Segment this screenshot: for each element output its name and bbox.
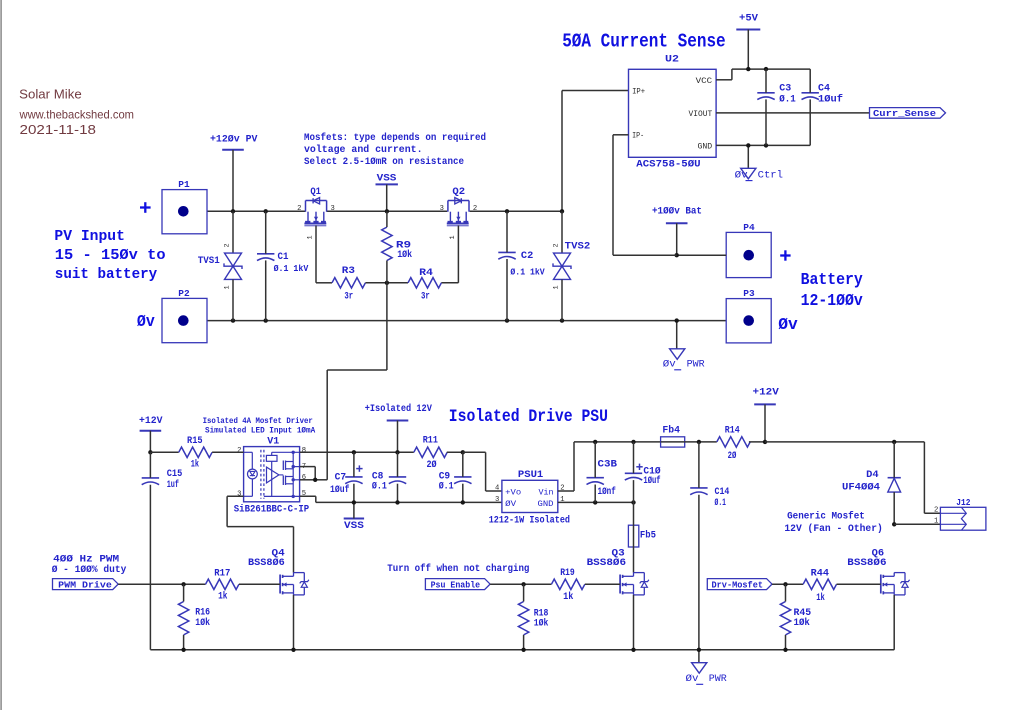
power +12V right (753, 387, 780, 405)
svg-text:8: 8 (302, 447, 306, 455)
resistor R11 (414, 447, 447, 457)
svg-text:2Ø: 2Ø (427, 459, 437, 471)
wire (523, 584, 525, 601)
resistor R18 (518, 602, 528, 635)
svg-text:P3: P3 (743, 288, 755, 299)
svg-text:1Øuf: 1Øuf (818, 94, 843, 106)
svg-text:PWM Drive: PWM Drive (58, 580, 112, 591)
wire (397, 484, 399, 503)
label C14 value (715, 487, 730, 509)
note Turn off when not charging (387, 563, 529, 575)
header text www.thebackshed.com (19, 107, 134, 121)
wire Q3 source (633, 595, 635, 650)
junction (697, 648, 701, 652)
pin 3 of Q2 (440, 205, 444, 213)
V1 internal LED (244, 452, 258, 496)
net label Psu Enable (425, 579, 490, 591)
label Q6 (847, 549, 886, 570)
svg-text:P1: P1 (178, 179, 190, 190)
svg-text:C3: C3 (779, 84, 791, 95)
svg-text:C4: C4 (818, 84, 830, 95)
wire Drv-Mosfet to R44 (772, 583, 803, 585)
svg-text:1: 1 (307, 235, 315, 239)
net label Curr_Sense (870, 108, 946, 119)
svg-text:BSS8Ø6: BSS8Ø6 (847, 557, 886, 569)
pin 1 of TVS1 (224, 285, 232, 289)
svg-text:J12: J12 (956, 497, 970, 508)
wire (785, 584, 787, 601)
svg-text:R3: R3 (342, 266, 355, 277)
pin GND of PSU1 (538, 499, 554, 509)
wire V1 pin5 to VSS rail (300, 496, 502, 502)
wire bottom 0v rail (150, 649, 894, 651)
wire (441, 282, 458, 284)
pin VCC of U2 (696, 77, 713, 86)
svg-text:R15: R15 (187, 436, 203, 447)
junction (385, 281, 389, 285)
svg-text:Q1: Q1 (310, 187, 321, 198)
svg-text:IP+: IP+ (632, 87, 645, 96)
label Fb4 (662, 425, 680, 437)
wire (316, 282, 332, 284)
wire to J12 pin 2 (924, 442, 940, 513)
wire C15 to 0v corner (149, 485, 151, 650)
svg-text:Fb4: Fb4 (662, 425, 680, 437)
junction (783, 582, 787, 586)
junction (505, 209, 509, 213)
svg-text:3: 3 (440, 205, 444, 213)
svg-text:1: 1 (224, 285, 232, 289)
svg-text:2: 2 (237, 447, 241, 455)
wire Q4 source (293, 595, 295, 650)
wire C14 to 0v rail (698, 495, 700, 650)
label R14 value (725, 425, 740, 462)
wire IP+ riser (562, 91, 629, 212)
transistor Q3 (620, 573, 649, 595)
svg-text:Psu Enable: Psu Enable (431, 580, 481, 591)
wire V1 pins 6-7 tie (300, 467, 316, 480)
capacitor C14 (690, 488, 707, 495)
resistor R17 (206, 579, 239, 589)
wire (633, 480, 635, 502)
resistor R9 (382, 227, 392, 260)
svg-text:3: 3 (237, 491, 241, 499)
junction (148, 450, 152, 454)
wire (150, 451, 178, 453)
connector P2 (162, 288, 207, 343)
label R11 value (423, 435, 438, 471)
svg-text:Fb5: Fb5 (640, 530, 656, 542)
junction (231, 209, 235, 213)
svg-text:R14: R14 (725, 425, 740, 436)
junction (746, 67, 750, 71)
svg-text:2: 2 (297, 205, 301, 213)
svg-text:+1ØØv Bat: +1ØØv Bat (652, 206, 702, 218)
wire (785, 635, 787, 650)
label Q3 (587, 549, 627, 570)
wire 0v rail (207, 320, 726, 322)
label R18 value (534, 608, 549, 629)
svg-text:R19: R19 (560, 568, 575, 579)
svg-text:1Øk: 1Øk (195, 617, 210, 629)
svg-text:R44: R44 (811, 569, 829, 580)
module PSU1 box (502, 480, 558, 512)
transistor Q1 (304, 198, 326, 226)
junction (461, 450, 465, 454)
pin Vin of PSU1 (539, 487, 554, 497)
junction (560, 318, 564, 322)
label J12 (956, 497, 970, 508)
label D4 value (842, 470, 880, 493)
ground 0v_PWR upper (663, 349, 705, 371)
svg-text:+Vo: +Vo (505, 487, 521, 497)
resistor R15 (179, 447, 212, 457)
svg-text:Ø - 1ØØ% duty: Ø - 1ØØ% duty (52, 564, 127, 576)
pin 1 of Q2 (449, 235, 457, 239)
svg-text:Øv: Øv (137, 312, 155, 331)
wire (506, 259, 508, 321)
capacitor C1 (257, 254, 274, 261)
pin 2 of J12 (934, 507, 938, 515)
wire (633, 442, 635, 473)
svg-text:1Øuf: 1Øuf (643, 475, 660, 487)
junction (697, 440, 701, 444)
op-amp U2 ACS758 box (629, 69, 717, 157)
junction (461, 500, 465, 504)
wire (462, 452, 464, 477)
wire (265, 211, 267, 254)
header text 2021-11-18 (20, 122, 97, 137)
junction (505, 318, 509, 322)
capacitor C9 (454, 477, 471, 484)
svg-text:P2: P2 (178, 288, 190, 299)
label ACS758-50U (636, 159, 700, 171)
wire Q6 source (893, 595, 895, 650)
svg-text:BSS8Ø6: BSS8Ø6 (248, 557, 285, 569)
svg-text:1Øk: 1Øk (534, 617, 549, 629)
pin 8 of V1 (302, 447, 306, 455)
svg-text:C3B: C3B (598, 460, 618, 471)
junction (231, 318, 235, 322)
connector J12 (940, 507, 986, 530)
svg-text:2Ø: 2Ø (728, 450, 737, 462)
pin 1 of TVS2 (553, 285, 561, 289)
wire (893, 442, 895, 478)
wire Fb4 through (661, 441, 717, 443)
label + Battery (780, 250, 790, 260)
label R44 value (811, 569, 829, 605)
wire (232, 279, 234, 320)
wire VCC step (716, 69, 810, 80)
label C10 value (643, 466, 660, 487)
label C3 value (779, 84, 796, 106)
svg-text:Select 2.5-1ØmR on resistance: Select 2.5-1ØmR on resistance (304, 156, 464, 168)
junction (395, 450, 399, 454)
svg-text:12V (Fan - Other): 12V (Fan - Other) (784, 523, 882, 535)
note PV Input (54, 228, 165, 283)
svg-text:PSU1: PSU1 (518, 470, 543, 481)
junction (521, 648, 525, 652)
junction (892, 440, 896, 444)
ground 0v_Ctrl (735, 168, 783, 181)
junction (783, 648, 787, 652)
resistor R3 (332, 278, 365, 288)
svg-text:2: 2 (224, 243, 232, 247)
wire (506, 211, 508, 252)
svg-text:P4: P4 (743, 222, 755, 233)
pin 2 of Q2 (473, 205, 477, 213)
svg-text:Battery: Battery (801, 270, 863, 289)
svg-text:Generic Mosfet: Generic Mosfet (787, 511, 865, 523)
capacitor C4 (802, 93, 819, 100)
svg-text:Øv: Øv (663, 359, 676, 371)
label TVS1 (198, 256, 220, 267)
junction (352, 450, 356, 454)
junction (181, 648, 185, 652)
capacitor C7 (345, 465, 362, 483)
label 1212-1W Isolated (489, 515, 570, 527)
wire V1 pin3 to Q4 drain (227, 496, 293, 572)
wire V1 pin8 row (300, 451, 414, 453)
wire (232, 150, 234, 212)
pin +Vo of PSU1 (505, 487, 521, 497)
wire GND row (716, 144, 810, 146)
transistor Q2 (447, 198, 469, 226)
svg-text:1: 1 (449, 235, 457, 239)
junction (892, 522, 896, 526)
label R17 value (214, 569, 230, 603)
junction (264, 209, 268, 213)
label V1 (267, 436, 279, 448)
junction (763, 440, 767, 444)
power +12V left (139, 415, 163, 431)
pin 6 of V1 (302, 474, 306, 482)
svg-text:PV Input: PV Input (54, 228, 125, 245)
connector P3 (726, 288, 771, 343)
svg-text:Ø.1: Ø.1 (715, 497, 727, 509)
svg-text:Ø.1: Ø.1 (439, 481, 454, 493)
svg-text:Ø.1 1kV: Ø.1 1kV (274, 263, 309, 274)
svg-text:Ø.1: Ø.1 (372, 481, 387, 493)
TVS diode TVS1 (224, 253, 242, 279)
svg-text:15 - 15Øv to: 15 - 15Øv to (55, 247, 166, 264)
wire (353, 484, 355, 503)
svg-text:Øv: Øv (778, 315, 798, 334)
svg-text:VCC: VCC (696, 77, 713, 86)
svg-text:Turn off when not charging: Turn off when not charging (387, 563, 529, 575)
svg-text:Drv-Mosfet: Drv-Mosfet (712, 580, 764, 591)
wire (386, 261, 388, 283)
header text Solar Mike (19, 87, 81, 102)
label C7 value (330, 472, 350, 496)
svg-text:+12Øv PV: +12Øv PV (210, 134, 258, 146)
note Battery 12-100v (801, 270, 863, 310)
svg-text:Isolated 4A Mosfet Driver: Isolated 4A Mosfet Driver (203, 416, 313, 426)
power +120v PV (210, 134, 258, 150)
svg-text:4: 4 (495, 485, 499, 493)
label R19 value (560, 568, 575, 603)
wire (893, 492, 895, 524)
wire to PSU1 pin 4 (463, 452, 502, 491)
connector P1 (162, 179, 207, 234)
junction (593, 500, 597, 504)
pin 4 of PSU1 (495, 485, 499, 493)
junction (631, 440, 635, 444)
capacitor C2 (498, 252, 515, 259)
note Generic Mosfet (784, 511, 882, 536)
label TVS2 (565, 242, 591, 253)
svg-text:2021-11-18: 2021-11-18 (20, 122, 97, 137)
wire (397, 452, 399, 477)
wire (765, 69, 767, 93)
svg-text:1212-1W Isolated: 1212-1W Isolated (489, 515, 570, 527)
label Fb5 (640, 530, 656, 542)
pin IP+ of U2 (632, 87, 645, 96)
note 400 Hz PWM (52, 554, 127, 576)
pin 3 of Q1 (331, 205, 335, 213)
svg-text:3r: 3r (344, 292, 353, 303)
wire (594, 442, 596, 478)
svg-text:Ctrl: Ctrl (758, 169, 783, 181)
wire (594, 485, 596, 503)
label C1 value (274, 252, 309, 274)
svg-text:+5V: +5V (739, 13, 759, 25)
svg-text:Solar Mike: Solar Mike (19, 87, 81, 102)
wire (698, 442, 700, 488)
label R9 value (396, 241, 412, 262)
title Isolated Drive PSU (449, 407, 608, 427)
diode D4 (888, 478, 901, 492)
title 50A Current Sense (562, 31, 726, 53)
pin 2 of TVS2 (553, 243, 561, 247)
resistor R4 (408, 278, 441, 288)
wire (232, 211, 234, 253)
svg-text:C7: C7 (335, 472, 347, 483)
wire (212, 451, 244, 453)
svg-text:+12V: +12V (139, 415, 163, 427)
junction (385, 209, 389, 213)
TVS diode TVS2 (553, 253, 571, 279)
label C9 value (439, 472, 454, 493)
svg-text:C14: C14 (715, 487, 730, 498)
resistor R44 (803, 579, 836, 589)
capacitor C8 (389, 477, 406, 484)
svg-text:C15: C15 (167, 469, 183, 480)
svg-text:1Øk: 1Øk (397, 249, 412, 261)
svg-text:GND: GND (698, 142, 713, 151)
wire (183, 635, 185, 650)
svg-text:SiB261BBC-C-IP: SiB261BBC-C-IP (234, 504, 309, 516)
svg-text:2: 2 (473, 205, 477, 213)
svg-text:PWR: PWR (709, 674, 727, 685)
wire +12V rail to D4 and J12 (765, 441, 924, 443)
power +5V (736, 13, 760, 30)
svg-text:1k: 1k (218, 591, 227, 603)
svg-text:ACS758-5ØU: ACS758-5ØU (636, 159, 700, 171)
wire PWM Drive to R17 (118, 583, 205, 585)
junction (395, 500, 399, 504)
capacitor C3 (757, 93, 774, 100)
junction (675, 253, 679, 257)
svg-text:U2: U2 (665, 54, 679, 66)
label SiB261BBC-C-IP (234, 504, 309, 516)
capacitor C15 (142, 478, 159, 485)
label 0v PV input (137, 312, 155, 331)
wire (747, 30, 749, 70)
svg-text:6: 6 (302, 474, 306, 482)
transistor Q4 (280, 573, 309, 595)
pin 1 of Q1 (307, 235, 315, 239)
wire IP- route (613, 135, 677, 255)
power +Isolated 12V (365, 403, 433, 421)
wire (183, 584, 185, 601)
svg-text:Mosfets: type depends on requi: Mosfets: type depends on required (304, 132, 486, 144)
label Q1 (310, 187, 321, 198)
wire (386, 211, 388, 227)
svg-text:ØV: ØV (505, 499, 517, 509)
label R16 value (195, 608, 210, 629)
wire P4 to +100v Bat node (677, 254, 727, 256)
wire (265, 260, 267, 320)
svg-text:R4: R4 (419, 268, 433, 279)
svg-text:3: 3 (331, 205, 335, 213)
junction (264, 318, 268, 322)
transistor Q6 (881, 573, 910, 595)
svg-text:5ØA Current Sense: 5ØA Current Sense (562, 31, 726, 53)
pin 7 of V1 (302, 463, 306, 471)
junction (764, 143, 768, 147)
svg-text:C2: C2 (521, 251, 533, 262)
pin 2 of V1 (237, 447, 241, 455)
svg-text:Simulated LED Input 1ØmA: Simulated LED Input 1ØmA (205, 426, 316, 436)
wire (149, 452, 151, 478)
svg-text:3: 3 (495, 496, 499, 504)
power VSS bottom (344, 519, 364, 533)
net label PWM Drive (53, 579, 119, 591)
wire (353, 502, 355, 518)
svg-text:+12V: +12V (753, 387, 780, 399)
svg-text:1Øk: 1Øk (794, 617, 810, 629)
wire (353, 452, 355, 477)
junction (593, 440, 597, 444)
wire (462, 484, 464, 503)
wire (809, 99, 811, 145)
svg-text:R11: R11 (423, 435, 438, 446)
svg-text:R17: R17 (214, 569, 230, 580)
label + PV input (140, 202, 151, 213)
wire PSU1 Vin riser (558, 442, 661, 491)
page left border (0, 0, 2, 710)
wire C10 bottom to Q3 drain through Fb5 (633, 502, 635, 572)
label C3B value (598, 460, 618, 499)
resistor R16 (178, 602, 188, 635)
svg-text:1k: 1k (191, 459, 199, 471)
svg-text:VSS: VSS (377, 172, 397, 184)
wire (764, 404, 766, 442)
wire D4 anode to J12 pin 1 (894, 523, 940, 525)
svg-text:Ø.1: Ø.1 (779, 94, 796, 106)
V1 isolation barrier (261, 450, 264, 499)
svg-text:3r: 3r (421, 292, 430, 303)
pin 2 of Q1 (297, 205, 301, 213)
svg-text:TVS2: TVS2 (565, 242, 591, 253)
wire +PV rail Q1 to Q2 (327, 210, 448, 212)
wire (397, 421, 399, 453)
svg-text:Curr_Sense: Curr_Sense (873, 108, 936, 119)
wire +PV rail Q2 to TVS2 corner (470, 210, 562, 212)
svg-text:1: 1 (553, 285, 561, 289)
resistor R19 (551, 579, 584, 589)
